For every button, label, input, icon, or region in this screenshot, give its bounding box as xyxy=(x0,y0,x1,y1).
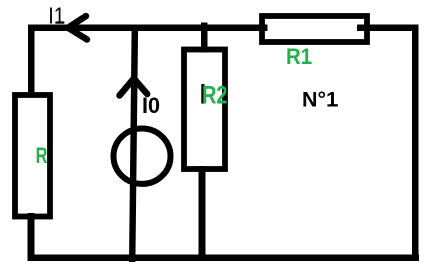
current source I0 xyxy=(114,129,171,184)
resistor R xyxy=(15,95,50,217)
wire right vertical xyxy=(412,25,419,262)
arrow I1 (current direction left) xyxy=(68,16,87,40)
label N°1 digit base bar xyxy=(330,104,338,106)
svg-text:I0: I0 xyxy=(142,93,160,118)
wire R bottom stub xyxy=(28,213,35,258)
svg-text:R1: R1 xyxy=(286,44,312,69)
label I1 digit base bar xyxy=(56,21,64,23)
arrow I0 (current direction up) xyxy=(120,79,148,96)
wire R2 bottom stub xyxy=(199,166,206,258)
wire top-right horizontal (R1 right pin to corner) xyxy=(357,25,419,32)
label R1 digit base bar xyxy=(303,62,312,64)
svg-text:N°1: N°1 xyxy=(302,88,338,112)
resistor R2 xyxy=(184,50,225,170)
svg-text:R2: R2 xyxy=(202,82,228,110)
wire R2 top stub xyxy=(201,23,208,53)
wire top-left horizontal (node to R1 left pin) xyxy=(28,25,268,32)
svg-text:R: R xyxy=(36,143,48,168)
wire center vertical (source branch) xyxy=(129,28,138,262)
wire bottom horizontal xyxy=(28,255,420,262)
wire left vertical (top corner to R top pin) xyxy=(28,25,35,96)
svg-text:I1: I1 xyxy=(48,3,65,29)
text cursor bar beside R2 label xyxy=(201,84,204,104)
resistor R1 xyxy=(262,16,367,42)
